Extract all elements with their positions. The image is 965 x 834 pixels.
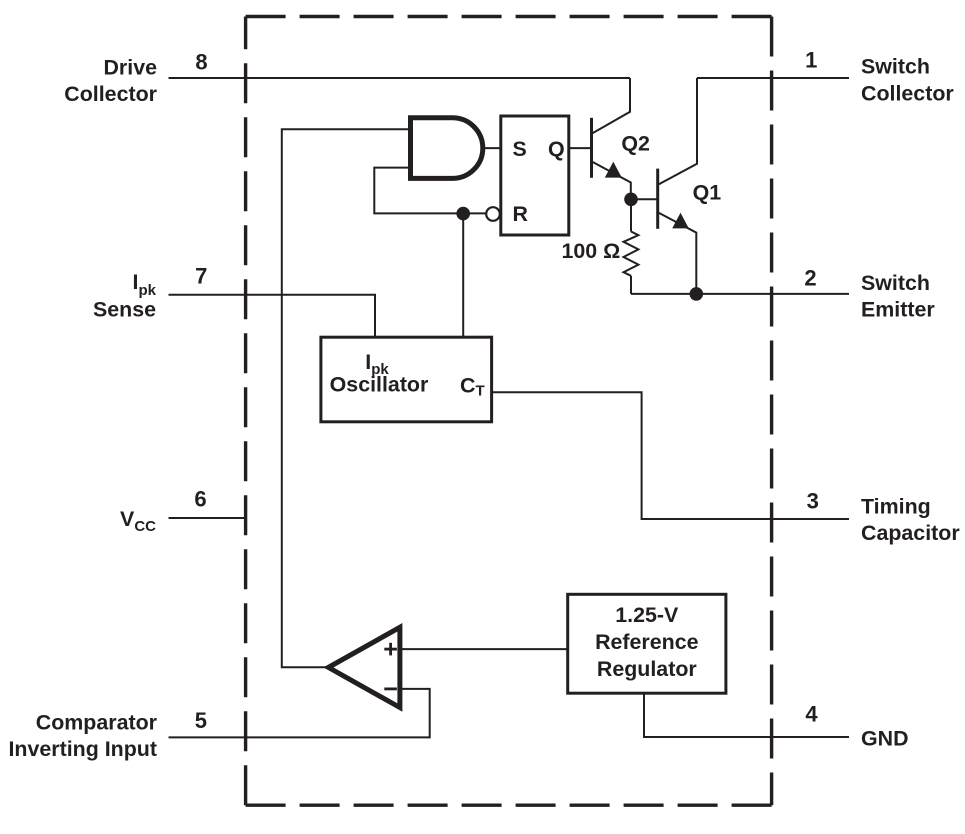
svg-text:6: 6 [194,487,206,512]
junction node switch emitter [690,287,704,301]
svg-text:R: R [513,202,529,226]
wire pin 8 Drive Collector [169,77,631,79]
wire AND gate lower input from latch R node [374,168,486,214]
wire pin 5 comparator inverting input [169,689,430,738]
svg-text:S: S [513,137,527,161]
svg-text:4: 4 [805,701,818,726]
comparator minus input symbol [384,688,397,691]
wire comparator output feedback to AND gate input [282,129,411,667]
transistor Q2 collector lead [592,78,631,134]
transistor Q2 emitter lead [592,161,631,199]
junction node Q2 emitter / Q1 base [624,193,638,207]
svg-text:Q: Q [548,137,565,161]
svg-text:Q1: Q1 [693,180,722,204]
wire resistor bottom to switch emitter line [630,276,632,294]
transistor Q1 base bar [656,169,659,229]
comparator U1 triangle [328,627,400,707]
svg-text:Q2: Q2 [621,132,650,156]
AND gate U2 [411,118,483,179]
wire pin 3 timing capacitor from oscillator CT [492,392,849,519]
reference regulator U5 box [568,594,726,693]
wire pin 6 VCC [169,517,246,519]
svg-text:GND: GND [861,727,909,751]
wire comparator plus input to reference regulator [400,648,568,650]
svg-text:2: 2 [804,265,816,290]
wire AND gate output to latch S input [483,147,501,149]
resistor R1 100 ohm zigzag [624,232,639,276]
oscillator U4 box [321,337,492,422]
wire pin 2 Switch Emitter [631,293,849,295]
svg-text:Oscillator: Oscillator [330,373,429,397]
SR latch U3 box [501,116,569,235]
transistor Q1 emitter lead [658,212,697,294]
transistor Q2 base bar [590,118,593,178]
wire node to Q1 base [631,198,658,200]
wire pin 1 Switch Collector [697,77,849,79]
wire pin 7 Ipk sense [169,295,376,337]
wire R node to oscillator [462,213,464,337]
IC package boundary (dashed) [246,17,772,806]
svg-text:5: 5 [195,708,207,733]
wire Q2 emitter node down to resistor [630,199,632,231]
transistor Q1 collector lead [658,78,697,185]
svg-text:1: 1 [805,48,817,73]
wire pin 4 GND from reference regulator [644,693,849,737]
junction node R input / oscillator [456,207,470,221]
comparator plus input symbol [384,643,397,656]
transistor Q1 emitter arrow [672,213,689,229]
latch R inverting bubble [486,207,500,221]
transistor Q2 emitter arrow [605,162,622,178]
svg-text:3: 3 [807,489,819,514]
svg-text:100 Ω: 100 Ω [562,239,621,263]
svg-text:7: 7 [195,264,207,289]
wire latch Q output to Q2 base [569,147,592,149]
svg-text:8: 8 [195,50,207,75]
